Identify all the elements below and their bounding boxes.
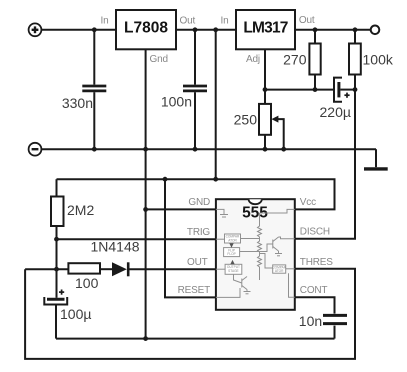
node gnd pin tap — [143, 207, 148, 212]
svg-text:ATOR: ATOR — [275, 269, 284, 273]
svg-text:CONT: CONT — [300, 285, 328, 296]
wire GND pin line — [146, 208, 216, 210]
resistor R2 100k — [349, 44, 361, 75]
wire DISCH net — [295, 90, 355, 239]
wire RESET net — [165, 179, 216, 297]
svg-text:LM317: LM317 — [243, 20, 287, 37]
IC U3 555 body — [216, 199, 295, 310]
regulator U1 L7808 — [116, 10, 176, 49]
internal comparator link 2 — [260, 254, 273, 269]
diode D1 1N4148 — [112, 262, 128, 276]
wire pot bottom — [264, 135, 266, 149]
svg-text:L7808: L7808 — [124, 20, 168, 37]
svg-text:10n: 10n — [299, 313, 322, 329]
IC U3 internal schematic — [216, 209, 295, 297]
capacitor C3 220u polarized — [334, 78, 350, 102]
svg-text:TRIG: TRIG — [187, 227, 211, 238]
internal discharge gnd — [278, 251, 280, 254]
internal comparator link 1 — [241, 238, 260, 240]
wire OUT pin line left — [25, 268, 68, 270]
node adj junction — [263, 87, 268, 92]
node cont return — [143, 336, 148, 341]
svg-text:FLOP: FLOP — [227, 252, 235, 256]
internal arrows — [229, 243, 233, 247]
internal out link — [216, 268, 225, 270]
internal trig link — [216, 238, 225, 240]
node 330n bottom — [92, 147, 97, 152]
wire OUT pin line right — [130, 268, 216, 270]
terminal minus input — [29, 143, 42, 156]
wire top rail segment 3 — [295, 29, 371, 31]
internal output stage box — [225, 264, 242, 274]
node out tap — [54, 267, 59, 272]
internal output gnd — [246, 290, 248, 292]
terminal output — [371, 26, 380, 35]
wire 100k bottom — [354, 75, 356, 90]
svg-text:THRES: THRES — [300, 257, 333, 268]
svg-text:100n: 100n — [161, 94, 192, 110]
wire 100n branch upper — [194, 30, 196, 85]
internal vcc tap — [260, 209, 295, 213]
wire adj rail left — [265, 89, 334, 91]
svg-text:220µ: 220µ — [320, 104, 351, 120]
wire Vcc feed vertical — [215, 30, 217, 179]
node 270 top — [313, 27, 318, 32]
svg-text:STAGE: STAGE — [228, 269, 239, 273]
wire adj rail right — [340, 89, 355, 91]
wire top rail segment 1 — [41, 29, 116, 31]
node pot bottom — [263, 147, 268, 152]
wire L7808 Gnd vertical — [145, 49, 147, 338]
ground symbol — [364, 167, 388, 170]
svg-text:OUT: OUT — [187, 257, 208, 268]
svg-text:Vcc: Vcc — [300, 197, 316, 208]
wire TRIG pin line — [57, 238, 216, 240]
svg-text:1N4148: 1N4148 — [91, 239, 140, 255]
wire THRES net — [25, 269, 355, 359]
node 330n top — [92, 27, 97, 32]
wire CONT net upper — [295, 297, 335, 313]
resistor R1 270 — [309, 44, 320, 75]
node 100n top — [193, 27, 198, 32]
wire CONT net lower — [334, 326, 336, 339]
potentiometer R3 250 — [259, 104, 278, 135]
internal comparator 1 box — [225, 234, 241, 243]
wire ground stub — [375, 149, 377, 167]
internal gnd stub — [216, 209, 224, 214]
svg-text:330n: 330n — [62, 95, 93, 111]
wire OUT pin line mid — [100, 268, 112, 270]
svg-text:In: In — [101, 16, 109, 27]
svg-text:Gnd: Gnd — [150, 54, 168, 65]
svg-text:In: In — [221, 16, 229, 27]
wire 2M2 bottom to TRIG — [56, 226, 58, 269]
wire top rail segment 2 — [176, 29, 236, 31]
node wiper bottom — [281, 147, 286, 152]
svg-text:100: 100 — [75, 275, 99, 291]
svg-text:DISCH: DISCH — [300, 226, 330, 237]
internal flipflop box — [224, 248, 240, 257]
capacitor C4 100u polarized — [44, 290, 67, 305]
internal output transistor — [241, 279, 243, 288]
capacitor C1 330n — [82, 86, 106, 91]
internal reset link — [216, 288, 240, 297]
svg-text:ATOR: ATOR — [228, 238, 237, 242]
node vcc feed mid — [213, 177, 218, 182]
internal tiny text — [226, 235, 287, 274]
node reset tap — [163, 177, 168, 182]
node 270 bottom — [313, 87, 318, 92]
internal thres link — [286, 268, 295, 270]
terminal plus input — [29, 23, 42, 36]
wire 100n branch lower — [194, 92, 196, 149]
svg-text:Out: Out — [180, 16, 196, 27]
wire LM317 Adj upper — [264, 49, 266, 104]
internal cont link — [289, 273, 295, 297]
svg-text:250: 250 — [234, 112, 258, 128]
wire 100u top — [56, 269, 58, 298]
wire pot wiper — [274, 119, 284, 149]
regulator U2 LM317 — [236, 10, 295, 49]
node 100k bottom — [353, 87, 358, 92]
svg-text:100k: 100k — [363, 52, 394, 68]
svg-text:2M2: 2M2 — [67, 202, 94, 218]
resistor R5 100 — [68, 263, 100, 273]
svg-text:RESET: RESET — [178, 285, 210, 296]
wire 270 top — [314, 30, 316, 44]
node 100k top — [353, 27, 358, 32]
internal comparator 2 box — [273, 265, 286, 273]
internal divider chain — [258, 213, 262, 280]
wire CONT return rail — [56, 338, 335, 340]
node trig tap — [54, 237, 59, 242]
wire 330n branch lower — [93, 92, 95, 149]
svg-text:270: 270 — [283, 52, 307, 68]
svg-text:GND: GND — [188, 197, 210, 208]
capacitor C2 100n — [183, 86, 207, 91]
node vcc feed top — [213, 27, 218, 32]
node gnd rail — [143, 147, 148, 152]
wire minus rail — [41, 148, 376, 150]
resistor R4 2M2 — [51, 197, 64, 227]
capacitor C5 10n — [323, 315, 347, 323]
wire 100u bottom — [55, 305, 57, 338]
wire 270 bottom — [314, 75, 316, 90]
wire 330n branch upper — [93, 30, 95, 85]
svg-text:Out: Out — [299, 15, 315, 26]
wire 100k top — [354, 30, 356, 44]
internal discharge transistor — [272, 240, 274, 249]
svg-text:Adj: Adj — [246, 54, 260, 65]
wire Vcc feed horizontal — [57, 179, 335, 209]
svg-text:100µ: 100µ — [60, 306, 91, 322]
node 100n bottom — [193, 147, 198, 152]
wire 2M2 top — [56, 179, 58, 196]
